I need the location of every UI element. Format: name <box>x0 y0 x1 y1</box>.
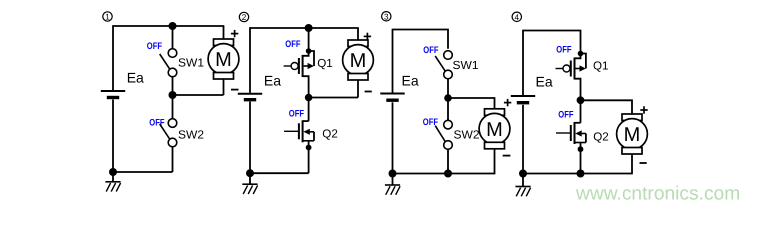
svg-text:SW1: SW1 <box>178 57 204 70</box>
node circuit1 middle junction <box>169 91 177 99</box>
Ea label circuit4 <box>536 73 553 89</box>
svg-text:M: M <box>350 50 367 72</box>
wire circuit3 middle rail <box>448 98 495 109</box>
motor M circuit3 body <box>479 113 510 144</box>
P-channel MOSFET Q1 gate bubble <box>291 63 298 70</box>
watermark www.cntronics.com <box>575 183 740 204</box>
wire circuit4 bottom rail <box>523 173 632 175</box>
switch SW1 blade (open) <box>160 54 170 69</box>
P-channel MOSFET Q1 source lead <box>303 51 309 56</box>
node circuit3 middle junction <box>444 94 452 102</box>
motor M circuit4 minus polarity label <box>640 162 647 164</box>
svg-text:OFF: OFF <box>147 41 162 52</box>
switch SW1 bottom contact <box>168 68 177 77</box>
svg-text:2: 2 <box>242 13 247 22</box>
wire circuit2 Q2 source wire <box>308 141 310 173</box>
wire circuit4 top rail <box>523 31 581 54</box>
wire circuit4 motor bottom lead <box>631 154 633 174</box>
svg-text:SW1: SW1 <box>453 59 479 72</box>
battery Ea circuit2 negative plate (short) <box>244 98 256 101</box>
motor M circuit1 plus polarity label <box>231 30 238 37</box>
motor M circuit3 letter M <box>486 119 503 141</box>
node circuit1 bottom junction <box>109 168 117 176</box>
OFF state label for SW1 (circuit3) <box>423 45 438 56</box>
OFF state label for Q2 (circuit4) <box>558 110 573 121</box>
N-channel MOSFET Q2 gate plate <box>298 123 300 139</box>
P-channel MOSFET Q1 gate lead <box>284 65 292 67</box>
ground circuit2 <box>242 184 257 194</box>
P-channel MOSFET Q1 bulk arrow (pointing out) <box>304 63 314 69</box>
wire circuit4 battery bottom lead <box>522 105 524 174</box>
wire circuit3 SW1 bottom lead <box>447 79 449 98</box>
wire circuit3 battery top lead <box>392 29 394 93</box>
svg-text:3: 3 <box>384 12 389 21</box>
switch SW1 circuit3 blade (open) <box>435 56 445 71</box>
motor M circuit4 body <box>617 119 648 150</box>
wire circuit4 Q2 source wire <box>580 143 582 174</box>
Q2 label circuit4 <box>593 131 609 144</box>
P-channel MOSFET Q1 circuit4 channel <box>574 58 576 80</box>
battery Ea circuit3 negative plate (short) <box>386 98 398 101</box>
node label circled 1 (circuit 1) <box>103 12 112 22</box>
node circuit3 bottom middle junction <box>444 170 452 178</box>
switch SW2 top contact <box>168 119 177 128</box>
wire circuit4 Q2 drain wire <box>580 100 582 123</box>
OFF state label for Q1 (circuit2) <box>285 39 300 50</box>
SW1 label <box>178 57 204 70</box>
wire circuit1 SW1 top lead <box>172 26 174 49</box>
svg-text:OFF: OFF <box>285 39 300 50</box>
Ea label circuit3 <box>402 73 419 89</box>
wire circuit2 battery bottom lead <box>249 102 251 174</box>
P-channel MOSFET Q1 source/bulk junction dot <box>306 48 312 54</box>
Q1 label circuit4 <box>593 60 609 73</box>
node circuit3 bottom left junction <box>389 170 397 178</box>
motor M circuit1 minus polarity label <box>231 89 239 91</box>
node label circled 3 (circuit 3) <box>382 12 391 22</box>
svg-text:Ea: Ea <box>536 73 553 89</box>
wire circuit2 motor bottom lead <box>357 80 359 98</box>
switch SW1 top contact <box>168 49 177 58</box>
svg-text:OFF: OFF <box>556 45 571 56</box>
switch SW2 blade (open) <box>160 124 170 139</box>
svg-text:M: M <box>215 49 232 71</box>
node circuit4 middle junction <box>577 96 585 104</box>
svg-text:Q1: Q1 <box>593 60 609 73</box>
wire circuit1 SW2 bottom lead <box>172 147 174 172</box>
switch SW2 circuit3 blade (open) <box>435 126 445 142</box>
motor M circuit3 minus polarity label <box>503 155 511 157</box>
motor M circuit2 body <box>343 45 374 76</box>
battery Ea circuit4 negative plate (short) <box>517 101 529 104</box>
node circuit4 bottom middle junction <box>577 170 585 178</box>
motor M circuit3 top brush <box>485 109 505 116</box>
N-channel MOSFET Q2 circuit4 drain lead <box>575 122 581 124</box>
P-channel MOSFET Q1 circuit4 source/bulk junction dot <box>578 51 584 57</box>
SW2 label circuit3 <box>454 129 480 142</box>
N-channel MOSFET Q2 circuit4 source/bulk junction dot <box>578 146 584 152</box>
node label circled 2 (circuit 2) <box>239 12 248 22</box>
N-channel MOSFET Q2 bulk tie to source <box>313 132 315 141</box>
wire circuit4 ground lead <box>522 174 524 187</box>
motor M circuit1 top brush <box>214 39 234 46</box>
svg-text:Ea: Ea <box>402 73 419 89</box>
P-channel MOSFET Q1 circuit4 gate bubble <box>563 65 570 72</box>
motor M circuit2 letter M <box>350 50 367 72</box>
N-channel MOSFET Q2 channel <box>302 120 304 142</box>
wire circuit3 battery bottom lead <box>392 102 394 173</box>
motor M circuit4 bottom brush <box>622 148 642 155</box>
P-channel MOSFET Q1 gate plate <box>298 58 300 74</box>
ground circuit3 <box>385 185 400 195</box>
ground circuit4 <box>515 187 530 197</box>
motor M circuit4 letter M <box>624 124 641 146</box>
N-channel MOSFET Q2 source/bulk junction dot <box>306 145 312 151</box>
wire circuit1 SW1 bottom lead <box>172 77 174 95</box>
N-channel MOSFET Q2 source lead <box>303 140 314 142</box>
node circuit2 middle junction <box>305 94 313 102</box>
switch SW1 circuit3 top contact <box>444 51 453 60</box>
wire circuit1 middle rail <box>173 94 224 96</box>
motor M circuit2 bottom brush <box>348 74 368 81</box>
wire circuit3 ground lead <box>392 174 394 185</box>
P-channel MOSFET Q1 circuit4 source lead <box>575 54 581 59</box>
wire circuit1 motor top lead <box>223 26 225 40</box>
battery Ea circuit2 positive plate (long) <box>238 93 262 95</box>
N-channel MOSFET Q2 circuit4 bulk tie to source <box>585 134 587 143</box>
svg-text:SW2: SW2 <box>178 129 204 142</box>
N-channel MOSFET Q2 circuit4 source lead <box>575 142 586 144</box>
svg-text:4: 4 <box>515 13 520 22</box>
SW2 label <box>178 129 204 142</box>
wire circuit1 bottom rail <box>113 171 173 173</box>
wire circuit4 Q1 drain lead <box>575 79 581 101</box>
svg-text:SW2: SW2 <box>454 129 480 142</box>
wire circuit3 SW2 bottom lead <box>447 149 449 173</box>
P-channel MOSFET Q1 circuit4 gate lead <box>556 68 564 70</box>
wire circuit2 ground lead <box>249 173 251 184</box>
node circuit2 bottom junction <box>246 169 254 177</box>
node label circled 4 (circuit 4) <box>512 12 521 22</box>
wire circuit3 bottom rail <box>393 173 495 175</box>
wire circuit3 motor bottom lead <box>494 149 496 175</box>
SW1 label circuit3 <box>453 59 479 72</box>
switch SW1 circuit3 bottom contact <box>444 70 453 79</box>
OFF state label for Q2 (circuit2) <box>289 109 304 120</box>
motor M circuit1 letter M <box>215 49 232 71</box>
wire circuit2 top rail <box>250 27 359 29</box>
node circuit4 bottom left junction <box>519 170 527 178</box>
N-channel MOSFET Q2 circuit4 bulk arrow (pointing in) <box>575 130 586 136</box>
Q1 label circuit2 <box>317 57 333 70</box>
N-channel MOSFET Q2 gate lead <box>284 130 299 132</box>
svg-text:OFF: OFF <box>423 45 438 56</box>
motor M circuit1 bottom brush <box>214 73 234 80</box>
OFF state label for Q1 (circuit4) <box>556 45 571 56</box>
N-channel MOSFET Q2 bulk arrow (pointing in) <box>303 129 314 135</box>
svg-text:M: M <box>624 124 641 146</box>
wire circuit2 Q2 drain wire <box>308 98 310 122</box>
svg-text:1: 1 <box>105 13 110 22</box>
N-channel MOSFET Q2 drain lead <box>303 120 309 122</box>
motor M circuit4 top brush <box>622 114 642 121</box>
svg-text:OFF: OFF <box>558 110 573 121</box>
switch SW2 circuit3 top contact <box>444 120 453 129</box>
N-channel MOSFET Q2 circuit4 channel <box>574 122 576 144</box>
motor M circuit4 plus polarity label <box>640 106 647 113</box>
wire circuit1 SW2 top lead <box>172 95 174 119</box>
wire circuit1 battery bottom lead <box>112 100 114 173</box>
wire circuit1 top rail <box>113 25 224 27</box>
P-channel MOSFET Q1 channel <box>302 55 304 77</box>
battery Ea circuit4 positive plate (long) <box>511 95 535 97</box>
OFF state label for SW2 <box>149 118 164 129</box>
svg-text:Ea: Ea <box>264 72 281 88</box>
switch SW2 bottom contact <box>168 138 177 147</box>
motor M circuit2 top brush <box>348 40 368 47</box>
motor M circuit1 body <box>208 44 239 75</box>
wire circuit2 bottom rail <box>250 172 309 174</box>
wire circuit2 Q1 source wire <box>308 28 310 51</box>
switch SW2 circuit3 bottom contact <box>444 141 453 150</box>
OFF state label for SW1 <box>147 41 162 52</box>
motor M circuit3 bottom brush <box>485 142 505 149</box>
wire circuit2 battery top lead <box>249 27 251 93</box>
wire circuit4 middle rail <box>581 100 633 114</box>
node circuit1 top-rail junction <box>169 22 177 30</box>
svg-text:Q2: Q2 <box>322 128 338 141</box>
P-channel MOSFET Q1 circuit4 gate plate <box>570 61 572 77</box>
motor M circuit3 plus polarity label <box>504 99 511 106</box>
wire circuit4 battery top lead <box>522 30 524 96</box>
Ea label circuit1 <box>127 69 144 85</box>
P-channel MOSFET Q1 bulk tie to source <box>309 51 314 66</box>
Ea label circuit2 <box>264 72 281 88</box>
Q2 label circuit2 <box>322 128 338 141</box>
motor M circuit2 minus polarity label <box>365 91 372 93</box>
wire circuit2 Q1 drain lead <box>303 76 309 97</box>
wire circuit1 motor bottom lead <box>223 79 225 96</box>
svg-text:Ea: Ea <box>127 69 144 85</box>
wire circuit3 top rail <box>393 30 449 49</box>
OFF state label for SW2 (circuit3) <box>423 117 438 128</box>
P-channel MOSFET Q1 circuit4 bulk tie to source <box>581 54 586 69</box>
wire circuit3 SW2 top lead <box>447 98 449 120</box>
wire circuit1 ground lead <box>112 172 114 182</box>
motor M circuit2 plus polarity label <box>364 33 371 40</box>
P-channel MOSFET Q1 circuit4 bulk arrow (pointing out) <box>576 65 586 71</box>
node circuit2 top-rail junction <box>305 24 313 32</box>
wire circuit1 battery top lead <box>112 25 114 90</box>
N-channel MOSFET Q2 circuit4 gate lead <box>556 132 571 134</box>
battery Ea circuit3 positive plate (long) <box>380 93 404 95</box>
battery Ea circuit1 positive plate (long) <box>101 90 125 92</box>
ground circuit1 <box>105 182 120 192</box>
svg-text:M: M <box>486 119 503 141</box>
svg-text:Q2: Q2 <box>593 131 609 144</box>
N-channel MOSFET Q2 circuit4 gate plate <box>570 125 572 141</box>
svg-text:Q1: Q1 <box>317 57 333 70</box>
svg-text:www.cntronics.com: www.cntronics.com <box>575 183 740 204</box>
battery Ea circuit1 negative plate (short) <box>107 96 119 99</box>
svg-text:OFF: OFF <box>289 109 304 120</box>
wire circuit2 middle rail <box>309 97 358 99</box>
wire circuit2 motor top lead <box>357 28 359 41</box>
